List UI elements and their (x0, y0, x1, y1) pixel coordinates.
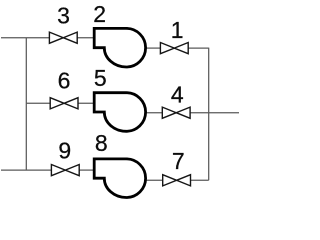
svg-text:4: 4 (171, 82, 184, 108)
svg-text:7: 7 (172, 148, 185, 174)
wire: row1 valve1-to-right-manifold segment (188, 47, 209, 49)
valve 6 (50, 98, 78, 109)
svg-text:6: 6 (58, 68, 71, 94)
wire: left manifold vertical (25, 38, 27, 170)
wire: row2 pump5-to-valve4 segment (145, 112, 163, 114)
valve 4 (162, 107, 190, 118)
svg-text:5: 5 (94, 65, 107, 91)
svg-text:8: 8 (95, 130, 108, 156)
wire: row3 valve7-to-right-manifold segment (191, 179, 209, 181)
wire: row3 valve9-to-pump8 segment (79, 169, 95, 171)
valve 9 (51, 165, 79, 176)
svg-text:1: 1 (171, 17, 184, 43)
wire: row2 valve6-to-pump5 segment (78, 102, 95, 104)
pump P2 (94, 28, 145, 67)
wire: row3 pump8-to-valve7 segment (145, 179, 163, 181)
wire: right manifold vertical (208, 48, 210, 181)
pump P5 (94, 93, 145, 132)
wire: row1 pump2-to-valve1 segment (145, 47, 161, 49)
pump P8 (94, 159, 145, 198)
wire: row1 valve3-to-pump2 segment (77, 37, 95, 39)
svg-text:2: 2 (93, 1, 106, 27)
valve 7 (163, 175, 191, 186)
svg-text:9: 9 (58, 137, 71, 163)
valve 3 (49, 32, 77, 43)
wire: row1 inlet line from left edge to valve 3 (1, 37, 49, 39)
wire: row2 manifold-to-valve6 segment (26, 102, 50, 104)
svg-text:3: 3 (57, 3, 70, 29)
wire: row2 outlet line from valve 4 to right edge (190, 112, 239, 114)
valve 1 (160, 43, 188, 54)
wire: row3 inlet line from left edge to valve 9 (1, 169, 51, 171)
